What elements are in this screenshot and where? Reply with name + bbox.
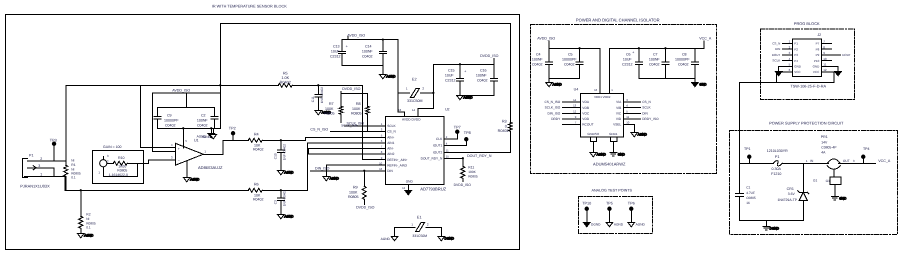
svg-text:F1210: F1210: [771, 172, 781, 176]
main analog block title: [212, 4, 287, 8]
capacitor C6 polarized: [635, 48, 642, 78]
svg-text:AVDD DVDD: AVDD DVDD: [402, 117, 421, 121]
svg-text:C0402: C0402: [477, 78, 488, 82]
svg-text:R0805: R0805: [324, 111, 335, 115]
test point TP4: [862, 155, 865, 163]
U2 top pins AVDD DVDD: [404, 112, 418, 117]
capacitor C16: [460, 64, 498, 95]
svg-text:C3: C3: [273, 200, 277, 204]
svg-text:VOA: VOA: [582, 100, 590, 104]
svg-text:AIN-: AIN-: [387, 147, 393, 151]
svg-text:C5: C5: [568, 52, 573, 56]
wire U1 V+ supply stub: [182, 127, 184, 148]
capacitor C13: [339, 40, 348, 66]
svg-text:C0402: C0402: [649, 62, 660, 66]
svg-text:U4: U4: [574, 87, 579, 91]
svg-text:AGND: AGND: [552, 82, 562, 86]
svg-text:ANALOG TEST POINTS: ANALOG TEST POINTS: [592, 188, 633, 192]
svg-text:SCLK_ISO: SCLK_ISO: [341, 123, 358, 127]
ground below C15: [456, 95, 473, 100]
svg-text:GND: GND: [406, 179, 414, 183]
svg-text:1210L030YR: 1210L030YR: [767, 149, 788, 153]
svg-text:AGND: AGND: [463, 95, 473, 99]
node SCLK J2: [772, 59, 780, 63]
svg-text:SCLK_ISO: SCLK_ISO: [545, 106, 561, 110]
svg-text:AGND: AGND: [386, 74, 396, 78]
svg-text:R5: R5: [283, 71, 288, 75]
svg-text:0: 0: [505, 124, 507, 128]
svg-text:C11: C11: [311, 96, 315, 102]
wire sense vertical x65.5: [65, 85, 67, 165]
svg-text:C13: C13: [333, 44, 340, 48]
ground AGND near output: [210, 128, 217, 139]
svg-text:10000PF: 10000PF: [675, 57, 690, 61]
analog test points title: [592, 188, 633, 192]
capacitor C8: [639, 48, 699, 78]
wire DOUT_RDY_N net: [467, 154, 492, 158]
op-amp U1 part number: [198, 165, 223, 170]
wire R6 to U2 AIN: [262, 143, 385, 191]
svg-text:AGND: AGND: [330, 176, 340, 180]
node junction at x220: [219, 84, 221, 86]
svg-text:C16: C16: [480, 68, 487, 72]
test point TP2: [231, 132, 234, 141]
node CS_N J2: [772, 41, 780, 45]
svg-text:P8: P8: [816, 47, 820, 51]
svg-text:P9: P9: [816, 53, 820, 57]
U4 left pin stubs: [562, 102, 580, 125]
svg-text:10000PF: 10000PF: [562, 57, 577, 61]
test point TP7: [456, 130, 459, 133]
svg-text:C0402: C0402: [362, 54, 373, 58]
svg-text:14V: 14V: [821, 140, 828, 144]
svg-text:10000PF: 10000PF: [164, 118, 179, 122]
test point TP1: [748, 155, 751, 163]
svg-text:AGND: AGND: [614, 222, 624, 226]
node AVDD_ISO label: [172, 88, 190, 92]
svg-text:10K: 10K: [254, 193, 261, 197]
capacitor C15 polarized: [456, 64, 463, 95]
gain select box: [92, 150, 143, 183]
wire U1 output: [203, 140, 223, 154]
ground AGND below C3: [277, 208, 294, 219]
svg-text:GND: GND: [699, 82, 707, 86]
node SCLK_ISO under R7: [341, 123, 358, 127]
svg-text:CS_N_ISO: CS_N_ISO: [310, 127, 328, 131]
svg-text:3: 3: [38, 164, 40, 168]
svg-text:E1: E1: [417, 215, 422, 219]
svg-text:VSEL: VSEL: [613, 123, 621, 127]
U4 right pin labels: [613, 98, 659, 127]
svg-text:GAIN = 100: GAIN = 100: [103, 145, 121, 149]
svg-text:TP7: TP7: [454, 125, 461, 129]
svg-text:SCLK: SCLK: [642, 106, 651, 110]
ground DGND right of E1: [438, 236, 455, 241]
svg-text:U2: U2: [445, 107, 450, 111]
svg-text:C14: C14: [365, 44, 372, 48]
wire AVDD rail: [348, 36, 404, 112]
svg-text:4.7UF: 4.7UF: [746, 191, 755, 195]
resistor R10: [107, 161, 143, 165]
ground below G1: [831, 196, 847, 200]
svg-text:C0805-4P: C0805-4P: [821, 145, 837, 149]
svg-text:100NF: 100NF: [362, 49, 374, 53]
potentiometer A1 trimmer: [100, 156, 138, 176]
spark gap G1: [830, 170, 841, 197]
svg-text:2: 2: [40, 157, 42, 161]
svg-text:C10: C10: [273, 153, 277, 159]
resistor R5: [278, 83, 292, 87]
svg-text:CLK: CLK: [436, 137, 443, 141]
svg-text:VCC_A: VCC_A: [699, 37, 712, 41]
svg-text:AIN2: AIN2: [387, 152, 394, 156]
svg-text:AGND: AGND: [381, 237, 391, 241]
svg-text:AGND: AGND: [284, 170, 294, 174]
wire AIN rows x308: [308, 148, 385, 154]
svg-text:IOUT1: IOUT1: [433, 144, 443, 148]
J2 pin stubs: [782, 43, 831, 60]
svg-text:GND: GND: [618, 152, 626, 156]
connector P1 part number: [20, 183, 50, 188]
svg-text:C2: C2: [201, 113, 206, 117]
svg-text:R0805: R0805: [351, 111, 362, 115]
svg-text:C0402: C0402: [197, 123, 208, 127]
svg-text:10: 10: [823, 57, 827, 61]
svg-text:1NF C0402: 1NF C0402: [282, 190, 286, 207]
svg-text:R7: R7: [329, 102, 334, 106]
svg-text:AGND: AGND: [84, 233, 94, 237]
svg-text:100K: 100K: [349, 190, 358, 194]
svg-text:DVDD_ISO: DVDD_ISO: [480, 54, 499, 58]
svg-text:TP5: TP5: [606, 201, 613, 205]
svg-text:G1: G1: [813, 178, 817, 182]
svg-text:TP10: TP10: [582, 201, 591, 205]
wire P1 pin2 to sense node: [36, 160, 66, 162]
svg-text:GNDISO: GNDISO: [587, 132, 600, 136]
svg-text:AGND: AGND: [638, 132, 648, 136]
capacitor C3: [277, 190, 284, 208]
svg-text:1NF C0402: 1NF C0402: [282, 144, 286, 161]
wire R7 R8 rail: [341, 91, 367, 106]
node AVDD_ISO iso: [537, 37, 555, 41]
svg-text:REFIN-_AIN3: REFIN-_AIN3: [387, 163, 407, 167]
svg-text:AGND: AGND: [202, 135, 212, 139]
node DVDD_ISO under R11: [454, 183, 472, 187]
wire CS_N_ISO row: [330, 130, 385, 132]
svg-text:100K: 100K: [468, 170, 476, 174]
svg-text:C7: C7: [653, 52, 658, 56]
capacitor C1: [735, 163, 743, 220]
ground AGND cap box: [208, 127, 215, 138]
svg-text:C15: C15: [448, 68, 455, 72]
svg-text:TP1: TP1: [744, 147, 751, 151]
svg-text:12: 12: [402, 186, 406, 190]
svg-text:P1: P1: [29, 153, 33, 157]
svg-text:3.6V: 3.6V: [788, 192, 796, 196]
svg-text:C0805: C0805: [746, 196, 756, 200]
svg-text:4A: 4A: [821, 150, 826, 154]
svg-text:14: 14: [573, 98, 577, 102]
svg-text:331C50M: 331C50M: [407, 99, 423, 103]
svg-text:C6: C6: [626, 52, 631, 56]
svg-text:−: −: [178, 159, 180, 163]
svg-text:1N4729A-TP: 1N4729A-TP: [777, 198, 797, 202]
svg-text:DIN: DIN: [775, 47, 780, 51]
resistor R4: [248, 138, 262, 142]
svg-text:R8: R8: [356, 102, 361, 106]
capacitor C14: [379, 40, 386, 66]
ground below C8: [691, 78, 707, 87]
svg-text:CR1: CR1: [787, 187, 794, 191]
wire J2 VCC loop: [777, 72, 834, 83]
node DVDD_ISO label: [480, 54, 499, 58]
power supply dashed box: [729, 130, 897, 234]
svg-text:DOUT: DOUT: [842, 53, 851, 57]
svg-text:IR WITH TEMPERATURE SENSOR BLO: IR WITH TEMPERATURE SENSOR BLOCK: [212, 4, 287, 8]
ground AGND below C4: [546, 78, 563, 87]
svg-text:P1: P1: [794, 41, 798, 45]
svg-text:AD7793BRUZ: AD7793BRUZ: [420, 186, 446, 191]
wire P1 pin3 tie: [33, 168, 54, 177]
svg-text:DOUT_RDY_N: DOUT_RDY_N: [421, 157, 443, 161]
test point TP3: [52, 142, 55, 161]
svg-text:R3: R3: [502, 119, 507, 123]
svg-text:PJRAN1X1U03X: PJRAN1X1U03X: [20, 183, 50, 188]
svg-text:VCC: VCC: [813, 70, 820, 74]
ferrite bead E1: [395, 222, 442, 236]
svg-text:AGND: AGND: [597, 152, 607, 156]
resistor R9 pullup: [362, 171, 366, 205]
main block border: [5, 14, 519, 249]
svg-text:100K: 100K: [325, 107, 334, 111]
op-amp U1: [175, 143, 203, 165]
svg-text:R10: R10: [118, 156, 125, 160]
ground earth below U4: [610, 152, 626, 156]
svg-text:C8: C8: [682, 52, 687, 56]
wire U1 V- to ground: [183, 161, 200, 182]
svg-text:DRDY_ISO: DRDY_ISO: [642, 117, 659, 121]
wire R3 to U2 pin11: [444, 131, 511, 152]
svg-text:100NF: 100NF: [476, 73, 488, 77]
svg-text:AVDD_ISO: AVDD_ISO: [537, 37, 555, 41]
svg-text:DIN_ISO: DIN_ISO: [547, 111, 560, 115]
svg-text:+: +: [178, 147, 180, 151]
svg-text:P7: P7: [816, 41, 820, 45]
svg-text:CS_N_ISO: CS_N_ISO: [544, 100, 560, 104]
svg-text:VIC: VIC: [616, 111, 622, 115]
test point TP8: [465, 138, 468, 141]
ground AGND mid: [379, 74, 396, 79]
svg-text:DVDD_ISO: DVDD_ISO: [454, 183, 472, 187]
svg-text:VDD1 VDD2: VDD1 VDD2: [594, 95, 611, 99]
connector P1 audio jack: [22, 158, 36, 177]
svg-text:TP6: TP6: [628, 201, 635, 205]
svg-text:13: 13: [398, 108, 402, 112]
svg-text:R0805: R0805: [468, 174, 478, 178]
svg-text:C2312: C2312: [330, 54, 341, 58]
node DVDD_ISO label R7R8: [342, 87, 361, 91]
svg-text:R0402: R0402: [253, 148, 264, 152]
svg-text:DGND: DGND: [591, 222, 601, 226]
wire power bottom rail: [739, 220, 803, 226]
resistor R6: [248, 188, 262, 192]
wire cap box: [140, 85, 220, 151]
svg-text:C2312: C2312: [622, 62, 633, 66]
svg-text:16: 16: [746, 201, 750, 205]
ground left of J2: [775, 66, 792, 76]
wire output row y140: [223, 139, 249, 141]
prog block title: [794, 21, 820, 26]
wire DVDD_ISO rail: [433, 58, 494, 64]
svg-text:C2312: C2312: [445, 78, 456, 82]
wire right drop to R3: [509, 23, 511, 122]
svg-text:IOUT2: IOUT2: [433, 151, 443, 155]
svg-text:0.1: 0.1: [86, 225, 91, 229]
ground AGND below C11: [315, 106, 332, 115]
svg-text:1NF C0402: 1NF C0402: [320, 87, 324, 104]
svg-text:VIA: VIA: [616, 100, 622, 104]
capacitor C9: [154, 107, 161, 128]
svg-text:1: 1: [40, 172, 42, 176]
svg-text:SCLK: SCLK: [772, 59, 780, 63]
ferrite bead E2: [398, 88, 434, 97]
wire iso left rail: [549, 41, 600, 94]
svg-text:C9: C9: [167, 113, 172, 117]
capacitor C4: [546, 48, 553, 78]
ADC U2 body: [385, 116, 444, 184]
svg-text:0.1: 0.1: [71, 175, 76, 179]
svg-text:P10: P10: [814, 59, 820, 63]
svg-text:DGND: DGND: [445, 236, 455, 240]
svg-text:10UF: 10UF: [445, 73, 455, 77]
svg-text:P4: P4: [794, 59, 798, 63]
svg-text:TP4: TP4: [863, 147, 870, 151]
U4 left pin labels: [544, 98, 593, 127]
svg-text:11: 11: [626, 115, 629, 119]
resistor R2: [79, 190, 83, 233]
wire VCC to power block: [739, 82, 776, 163]
svg-text:100NF: 100NF: [197, 118, 209, 122]
U4 VSEL pin to ground: [623, 124, 647, 136]
wire power rail: [739, 162, 875, 164]
svg-text:AGND: AGND: [190, 177, 200, 181]
svg-text:CS_N: CS_N: [642, 100, 651, 104]
wire iso right rail: [609, 41, 704, 94]
svg-text:C0402: C0402: [532, 62, 543, 66]
isolator dashed box: [530, 24, 716, 173]
svg-text:PROG BLOCK: PROG BLOCK: [794, 21, 820, 26]
svg-text:E2: E2: [412, 77, 417, 81]
svg-text:R0402: R0402: [253, 198, 264, 202]
ground AGND below U4: [590, 152, 607, 157]
svg-text:DGND: DGND: [770, 226, 780, 230]
svg-text:VCC_A: VCC_A: [878, 159, 891, 163]
U2 GND pin to ground: [407, 184, 409, 190]
svg-text:VOC: VOC: [582, 111, 590, 115]
svg-text:P3: P3: [794, 53, 798, 57]
svg-text:AIN1: AIN1: [387, 141, 394, 145]
test point TP5: [606, 207, 613, 227]
node DOUT J2 right: [831, 54, 840, 56]
resistor R11 pullup: [461, 158, 465, 181]
svg-text:DVDD_ISO: DVDD_ISO: [342, 87, 361, 91]
resistor R1: [64, 165, 68, 190]
wire P1 pin1 to bottom rail: [36, 176, 65, 190]
svg-text:VIB: VIB: [616, 106, 621, 110]
analog test points dashed box: [578, 196, 652, 233]
ground AGND below R2: [77, 233, 94, 238]
resistor R8: [365, 106, 369, 131]
isolator section title: [576, 17, 660, 22]
svg-text:AVDD_ISO: AVDD_ISO: [172, 88, 190, 92]
wire top rail y23: [220, 23, 510, 128]
svg-text:P2: P2: [794, 47, 798, 51]
svg-text:R0402: R0402: [280, 80, 291, 84]
svg-text:SCLK: SCLK: [387, 124, 396, 128]
svg-text:10K: 10K: [254, 143, 261, 147]
svg-text:DVDD_ISO: DVDD_ISO: [356, 205, 375, 209]
svg-text:C0402: C0402: [165, 123, 176, 127]
svg-text:R2: R2: [86, 212, 90, 216]
svg-text:U1: U1: [194, 138, 199, 142]
svg-text:ADUM5401ARWZ: ADUM5401ARWZ: [593, 162, 626, 167]
svg-text:R4: R4: [254, 132, 259, 136]
J2 pin labels: [789, 39, 827, 74]
svg-text:REFIN+_AIN+: REFIN+_AIN+: [387, 158, 408, 162]
svg-text:VID: VID: [616, 117, 622, 121]
svg-text:16: 16: [594, 88, 598, 92]
svg-text:GND1: GND1: [609, 132, 618, 136]
svg-text:POWER SUPPLY PROTECTION CIRCUI: POWER SUPPLY PROTECTION CIRCUIT: [769, 120, 844, 125]
svg-text:10: 10: [379, 161, 383, 165]
svg-text:TP8: TP8: [464, 131, 471, 135]
svg-text:1-1614622-0: 1-1614622-0: [109, 173, 128, 177]
capacitor C5: [549, 48, 583, 78]
node DOUT J2: [772, 53, 781, 57]
svg-text:R9: R9: [353, 185, 358, 189]
node VCC_A iso: [699, 37, 712, 41]
wire DIN row: [310, 170, 385, 172]
svg-text:DIN: DIN: [387, 169, 393, 173]
zener diode CR1: [798, 163, 809, 220]
svg-text:AIN+: AIN+: [387, 136, 394, 140]
test point TP6: [628, 207, 635, 227]
U4 right pin stubs: [623, 102, 640, 119]
svg-text:R6: R6: [254, 182, 259, 186]
wire REFIN- row to ground: [323, 165, 386, 181]
wire bottom rail y190: [65, 189, 248, 191]
svg-text:R0402: R0402: [498, 129, 509, 133]
svg-text:TP3: TP3: [50, 138, 57, 142]
resistor R3: [508, 122, 512, 131]
svg-text:10UF: 10UF: [331, 49, 341, 53]
svg-text:DOUT: DOUT: [772, 53, 781, 57]
svg-text:10: 10: [626, 120, 630, 124]
svg-text:14: 14: [412, 108, 416, 112]
svg-text:VCC: VCC: [794, 70, 801, 74]
wire reference rail y85: [66, 85, 386, 159]
svg-text:DOUT_RDY_N: DOUT_RDY_N: [467, 154, 492, 158]
node DVDD_ISO under R9: [356, 205, 375, 209]
wire gain box to opamp inverting input: [143, 160, 175, 164]
ground below U2: [405, 190, 412, 195]
svg-text:NI: NI: [71, 158, 74, 162]
isolator U4 body: [580, 93, 623, 137]
U4 part number: [593, 162, 626, 167]
svg-text:C1: C1: [746, 185, 750, 189]
svg-text:DIN_ISO: DIN_ISO: [315, 166, 330, 170]
capacitor C10: [277, 140, 284, 162]
